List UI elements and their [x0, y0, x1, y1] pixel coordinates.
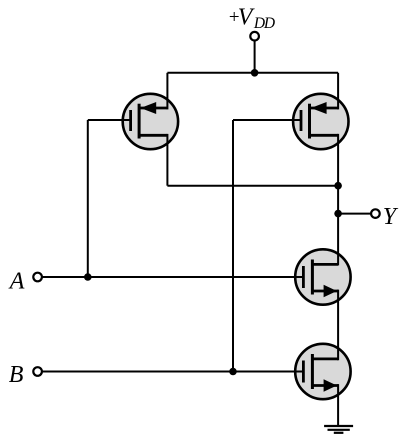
ground [324, 426, 353, 433]
svg-text:A: A [8, 269, 25, 295]
wire Q3-Q4 link [337, 290, 339, 361]
junction A [84, 273, 92, 281]
wire VDD bus [167, 72, 338, 74]
B terminal [33, 367, 42, 376]
wire Q1 source up [166, 73, 168, 110]
junction Y [334, 210, 342, 218]
svg-text:V: V [238, 4, 255, 30]
transistor Q3 (upper NMOS) body [295, 249, 350, 304]
label +VDD [228, 4, 275, 32]
wire Y stub [338, 213, 371, 215]
wire Q4 source down [337, 384, 339, 426]
transistor Q1 (left PMOS) body [123, 94, 178, 149]
wire right trunk [337, 134, 339, 266]
wire Q2 source up [337, 73, 339, 110]
wire Q1 gate lead [88, 119, 131, 121]
wire A vertical [87, 120, 89, 277]
wire drain bus [167, 185, 338, 187]
wire Q2 gate lead [233, 119, 301, 121]
svg-text:DD: DD [253, 15, 275, 32]
wire VDD stub [254, 41, 256, 73]
junction VDD [251, 69, 259, 77]
wire B line [42, 371, 304, 373]
Y terminal [371, 209, 380, 218]
transistor Q2 (right PMOS) body [293, 94, 348, 149]
wire A line [42, 276, 304, 278]
A terminal [33, 273, 42, 282]
wire B vertical [232, 120, 234, 372]
wire Q1 drain down [166, 134, 168, 186]
junction B [229, 368, 237, 376]
svg-text:B: B [9, 362, 24, 388]
transistor Q4 (lower NMOS) body [295, 344, 350, 399]
VDD terminal [250, 32, 259, 41]
junction drains [334, 182, 342, 190]
